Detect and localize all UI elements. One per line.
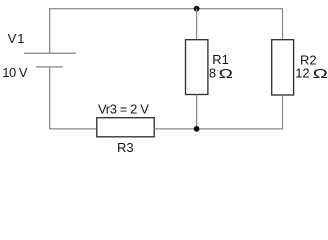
wire bottom left segment from corner to R3 (49, 128, 97, 130)
wire left vertical from battery - plate down to bottom-left corner (49, 67, 51, 129)
svg-text:Vr3 = 2 V: Vr3 = 2 V (98, 101, 149, 116)
junction dot bottom node (194, 126, 200, 132)
svg-text:V1: V1 (8, 31, 26, 46)
resistor R2 box (272, 40, 294, 95)
resistor R1 box (186, 40, 208, 95)
junction dot top node (194, 6, 200, 12)
value 12 ohm (295, 65, 328, 81)
value 10 V (2, 65, 28, 80)
value 8 ohm (209, 65, 233, 81)
wire left vertical from top corner down to battery + plate (49, 8, 51, 53)
svg-text:Ω: Ω (313, 66, 328, 81)
label R2 (300, 53, 317, 68)
wire R2 bottom lead down to bottom wire (282, 95, 284, 130)
wire R1 top lead (196, 9, 198, 40)
wire bottom segment from R3 to R2 branch corner (154, 128, 282, 130)
wire top horizontal from battery branch to R2 branch (49, 8, 282, 10)
svg-text:10 V: 10 V (2, 65, 28, 80)
resistor R3 box (97, 118, 154, 137)
svg-text:Ω: Ω (219, 67, 233, 81)
wire R2 top lead from top-right corner (282, 8, 284, 40)
battery V1 plates (24, 53, 76, 67)
svg-text:8: 8 (209, 65, 216, 80)
svg-text:12: 12 (295, 65, 309, 80)
value label Vr3 = 2 V (98, 101, 149, 116)
label R1 (212, 52, 229, 67)
svg-text:R3: R3 (117, 140, 134, 155)
label R3 (117, 140, 134, 155)
label V1 (8, 31, 26, 46)
wire R1 bottom lead (196, 95, 198, 129)
